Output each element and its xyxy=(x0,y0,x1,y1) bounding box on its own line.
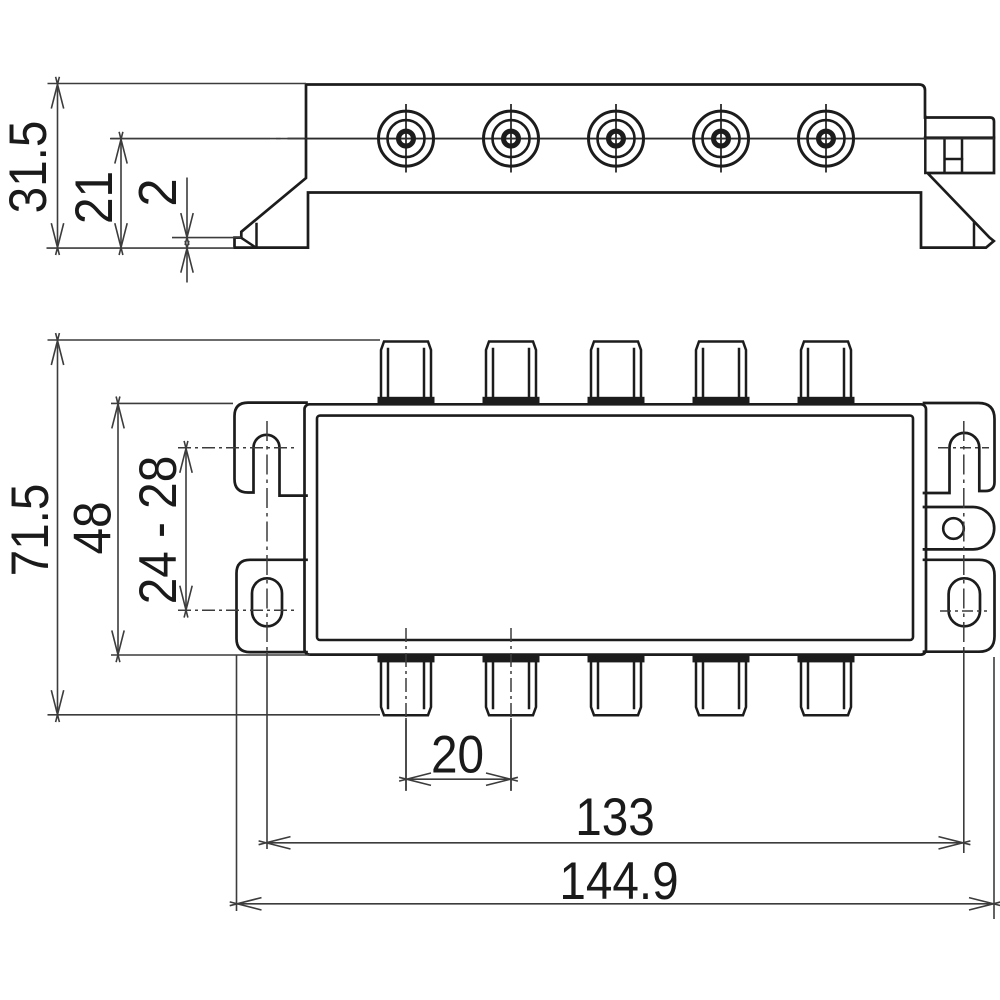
dim 31.5 top extension line xyxy=(48,83,307,85)
top view: F-connector port 5 (front circles + crosshair) xyxy=(799,104,854,173)
label 24 - 28 xyxy=(128,456,188,604)
dim 20 right extension line xyxy=(510,720,512,790)
svg-text:20: 20 xyxy=(431,724,484,784)
dim 20 left extension line xyxy=(405,720,407,790)
label 20 xyxy=(431,724,484,784)
label 31.5 xyxy=(0,121,57,214)
front view: right flange middle tab with round hole xyxy=(924,507,994,549)
dim line 71.5 with arrows xyxy=(51,333,63,722)
front view: stud 1 vertical centerline xyxy=(405,628,407,791)
top view: terminal slot crossbar xyxy=(945,158,962,161)
top view: F-connector port 2 (front circles + crosshair) xyxy=(484,104,539,173)
front view: slot-center horizontal centerline right xyxy=(938,447,989,449)
top view: terminal slot left wall xyxy=(943,139,946,172)
front view: bottom F-connector stud 4 xyxy=(693,655,750,715)
dim 31.5/21 bottom extension line xyxy=(47,247,235,249)
top view: left foot notch diagonal xyxy=(243,239,256,247)
svg-text:144.9: 144.9 xyxy=(559,851,678,911)
dim 21 top extension line (centerline ext) xyxy=(111,138,305,140)
dim line 31.5 with arrows xyxy=(51,77,63,255)
svg-text:48: 48 xyxy=(62,501,122,554)
dim 2 upper extension line xyxy=(172,237,241,239)
top view: body right edge at terminal tab xyxy=(924,117,927,174)
front view: right flange lower tab with oval slot xyxy=(924,560,995,652)
dim line 2 with outside arrows xyxy=(181,178,193,283)
dim 144.9 right extension line xyxy=(993,657,995,919)
front view: right flange upper tab with open keyhole slot xyxy=(924,403,995,493)
svg-text:31.5: 31.5 xyxy=(0,121,57,214)
dim line 21 with arrows xyxy=(115,132,127,255)
dim 48 top extension line xyxy=(111,402,233,404)
front view: top F-connector stud 4 xyxy=(693,342,750,404)
label 133 xyxy=(575,787,655,847)
front view: oval-center horizontal centerline right xyxy=(940,610,987,612)
svg-text:71.5: 71.5 xyxy=(0,484,59,577)
dim line 24-28 with arrows xyxy=(180,441,192,618)
front view: stud 2 vertical centerline xyxy=(510,628,512,791)
front view: oval-center horizontal centerline left xyxy=(178,609,296,611)
top view: left foot inner bend line xyxy=(255,224,258,247)
front view: left flange upper tab with open keyhole slot xyxy=(235,403,307,496)
front view: inner face rectangle xyxy=(317,416,913,640)
label 48 xyxy=(62,501,122,554)
front view: bottom F-connector stud 2 xyxy=(483,655,540,715)
front view: top F-connector stud 3 xyxy=(588,342,645,404)
dim line 48 with arrows xyxy=(112,397,124,663)
label 21 xyxy=(64,171,124,224)
svg-text:133: 133 xyxy=(575,787,655,847)
dim 71.5 bottom extension line xyxy=(48,714,381,716)
front view: bottom F-connector stud 1 xyxy=(378,655,435,715)
front view: right flange vertical centerline xyxy=(963,421,965,853)
top view: device body profile outline xyxy=(235,85,995,248)
dim line 144.9 with arrows xyxy=(230,898,1000,910)
front view: slot-center horizontal centerline left xyxy=(178,447,295,449)
dim 71.5 top extension line xyxy=(48,339,381,341)
front view: bottom F-connector stud 5 xyxy=(798,655,855,715)
svg-text:21: 21 xyxy=(64,171,124,224)
top view: F-connector port 3 (front circles + crosshair) xyxy=(589,104,644,173)
top view: F-connector port 1 (front circles + crosshair) xyxy=(379,104,434,173)
top view: right foot inner bend line xyxy=(973,224,976,248)
svg-text:2: 2 xyxy=(129,178,188,206)
top view: F-connector port 4 (front circles + crosshair) xyxy=(694,104,749,173)
label 2 xyxy=(129,178,188,206)
top view: terminal slot right wall xyxy=(961,139,964,172)
dim line 133 with arrows xyxy=(259,837,971,849)
dim 48 bottom extension line xyxy=(111,654,310,656)
front view: top F-connector stud 2 xyxy=(483,342,540,404)
front view: bottom F-connector stud 3 xyxy=(588,655,645,715)
top view: horizontal centerline xyxy=(110,138,994,140)
front view: top F-connector stud 5 xyxy=(798,342,855,404)
label 71.5 xyxy=(0,484,59,577)
front view: left flange vertical centerline xyxy=(266,421,268,849)
top view: terminal tab fold line xyxy=(925,136,994,139)
front view: top F-connector stud 1 xyxy=(378,342,435,404)
front view: left flange lower tab with oval slot xyxy=(237,560,307,652)
dim line 20 with arrows xyxy=(399,773,518,785)
front view: body outer rectangle xyxy=(305,404,927,654)
label 144.9 xyxy=(559,851,678,911)
dim 144.9 left extension line xyxy=(236,655,238,911)
svg-text:24 - 28: 24 - 28 xyxy=(128,456,188,604)
